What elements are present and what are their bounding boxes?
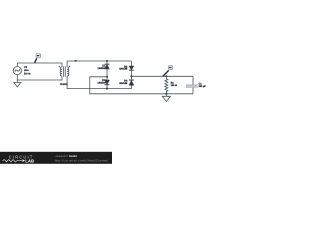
wire D3 bottom lead [106,85,108,89]
wire net C: secondary top rail [67,61,131,67]
label D1 1N4148 [98,64,107,70]
node junction R1 top [165,75,167,77]
label R1 100 ohm [171,82,177,88]
svg-text:50 Hz: 50 Hz [24,73,31,76]
node junction D1 top [106,60,108,62]
svg-text:100 µF: 100 µF [199,85,207,88]
diode D1 [105,64,110,69]
diode D4 [129,80,134,85]
node junction mid-left [106,76,108,78]
label D4 1N4148 [119,79,128,84]
probe annotation on net A [35,54,41,63]
wire D1 top lead [106,61,108,64]
diode D2 [129,66,134,70]
wire net D: secondary bottom rail [67,76,131,89]
wire D2 top lead [130,61,132,66]
svg-text:1N4148: 1N4148 [98,67,107,70]
transformer XFMR1 [59,66,71,77]
capacitor C1 [186,76,198,94]
wire net A: V1 top to transformer primary [17,63,62,67]
svg-text:100 Ω: 100 Ω [171,84,177,87]
ground below R1 [162,94,170,102]
resistor R1 [165,76,168,94]
label XFMR1 [60,83,69,86]
svg-text:http://circuitlab.com/c/hfvy62: http://circuitlab.com/c/hfvy62hzsmq/ [55,159,109,163]
svg-text:1N4148: 1N4148 [119,68,128,71]
label C1 100 uF [199,82,207,88]
node junction D3 bottom [106,88,108,90]
svg-text:1N4148: 1N4148 [119,82,128,85]
label D2 1N4148 [119,65,128,70]
wire net E: mid-left to bottom route [90,77,193,94]
label V1 sine 50 Hz [24,66,31,76]
wire D4 bottom lead [130,85,132,88]
current dot on net C [74,60,77,62]
footer bar [0,152,112,164]
diode D3 [105,80,110,85]
node junction mid-right [130,75,132,77]
wire V1 top lead [16,63,18,67]
node junction R1 bottom [165,93,167,95]
label D3 1N4148 [98,79,107,84]
svg-text:LAB: LAB [25,159,34,164]
wire net B: V1 bottom to transformer primary bottom [17,76,62,80]
wire D2 to D4 [130,70,132,80]
wire D1 to D3 [106,69,108,80]
svg-text:D1: D1 [102,64,106,67]
wire net F: mid-right to load top [131,75,193,77]
probe annotation on net F [163,66,173,77]
ground below V1 [14,80,21,87]
voltage source V1 [13,67,21,75]
svg-text:1N4148: 1N4148 [98,82,107,85]
wire V1 bottom lead [16,75,18,80]
